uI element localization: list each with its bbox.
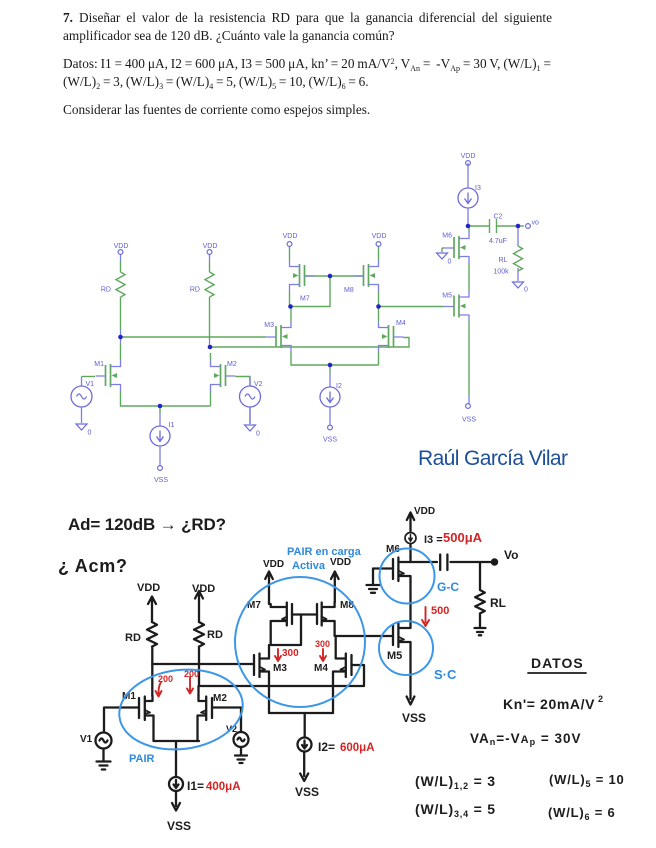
svg-text:M8: M8 [344,287,354,294]
svg-text:VDD: VDD [283,233,298,240]
svg-text:VDD: VDD [263,559,284,570]
svg-text:(W/L)3,4 = 5: (W/L)3,4 = 5 [415,801,496,819]
svg-text:M7: M7 [300,296,310,303]
svg-text:I3: I3 [475,185,481,192]
svg-text:600μA: 600μA [340,742,375,754]
svg-text:C2: C2 [494,214,503,221]
svg-text:400μA: 400μA [206,781,241,793]
svg-text:Vo: Vo [504,548,518,562]
svg-text:0: 0 [88,430,92,437]
svg-text:S·C: S·C [434,667,457,682]
svg-text:I1: I1 [169,422,175,429]
svg-text:Activa: Activa [292,560,326,572]
svg-text:M5: M5 [387,650,402,662]
svg-text:VDD: VDD [114,243,129,250]
svg-text:Kn'= 20mA/V: Kn'= 20mA/V [503,696,595,712]
svg-text:V1: V1 [86,381,95,388]
svg-text:VSS: VSS [295,785,319,799]
svg-text:0: 0 [524,287,528,294]
svg-text:I2: I2 [336,383,342,390]
svg-text:DATOS: DATOS [531,655,584,671]
svg-text:RD: RD [207,629,223,641]
svg-text:VAn=-VAp = 30V: VAn=-VAp = 30V [470,731,582,747]
svg-text:0: 0 [256,431,260,438]
svg-text:I1=: I1= [187,779,204,793]
svg-text:100k: 100k [493,269,509,276]
svg-text:V1: V1 [80,734,93,745]
svg-text:VSS: VSS [167,819,191,833]
svg-text:(W/L)6 = 6: (W/L)6 = 6 [548,805,616,822]
svg-text:500μA: 500μA [443,530,483,545]
svg-text:2: 2 [598,694,603,704]
svg-text:M6: M6 [442,233,452,240]
svg-text:RD: RD [190,287,200,294]
svg-text:RL: RL [490,596,506,610]
svg-text:I2=: I2= [318,740,335,754]
svg-text:200: 200 [158,674,173,684]
svg-text:I3 =: I3 = [424,534,443,546]
svg-text:VDD: VDD [372,233,387,240]
svg-text:RL: RL [499,257,508,264]
svg-text:VSS: VSS [154,477,168,484]
svg-text:M5: M5 [442,293,452,300]
svg-text:Ad= 120dB → ¿RD?: Ad= 120dB → ¿RD? [68,515,226,534]
svg-text:G-C: G-C [437,580,459,594]
svg-text:(W/L)5 = 10: (W/L)5 = 10 [549,772,625,789]
svg-text:VDD: VDD [137,582,160,594]
svg-text:RD: RD [101,287,111,294]
svg-text:0: 0 [448,259,452,266]
svg-text:M3: M3 [273,663,287,674]
svg-text:VSS: VSS [462,417,476,424]
svg-text:VDD: VDD [203,243,218,250]
svg-text:VSS: VSS [323,437,337,444]
svg-text:M2: M2 [213,693,227,704]
svg-text:500: 500 [431,605,449,617]
svg-text:300: 300 [315,639,330,649]
svg-text:M4: M4 [314,663,328,674]
svg-text:Raúl García Vilar: Raúl García Vilar [418,447,568,470]
svg-text:M2: M2 [227,361,237,368]
svg-text:V2: V2 [254,381,263,388]
svg-text:M3: M3 [264,322,274,329]
svg-text:VDD: VDD [414,506,435,517]
svg-text:VDD: VDD [330,557,351,568]
svg-text:M1: M1 [94,361,104,368]
svg-text:300: 300 [282,648,299,659]
svg-text:¿ Acm?: ¿ Acm? [58,556,127,576]
svg-text:VSS: VSS [402,711,426,725]
svg-text:vo: vo [532,220,540,227]
svg-text:VDD: VDD [461,153,476,160]
svg-text:PAIR en carga: PAIR en carga [287,546,362,558]
svg-text:M4: M4 [396,320,406,327]
svg-text:4.7uF: 4.7uF [489,238,507,245]
svg-text:VDD: VDD [192,583,215,595]
svg-text:RD: RD [125,632,141,644]
svg-text:(W/L)1,2 = 3: (W/L)1,2 = 3 [415,773,496,791]
svg-text:PAIR: PAIR [129,753,155,765]
